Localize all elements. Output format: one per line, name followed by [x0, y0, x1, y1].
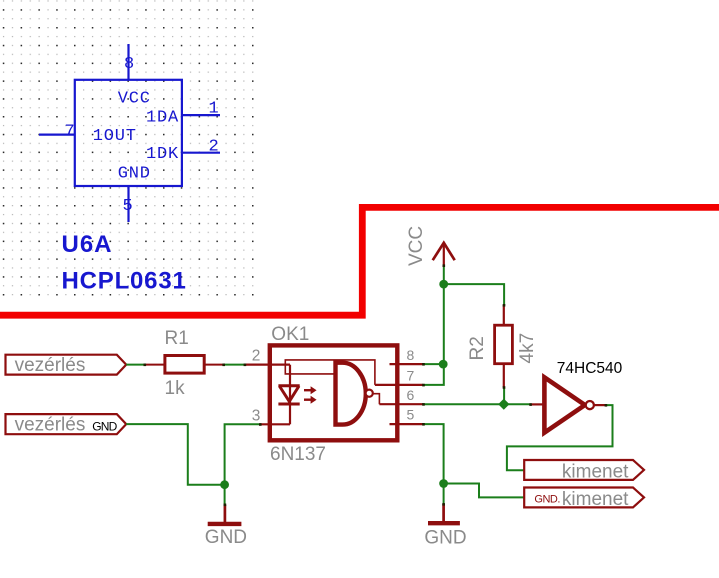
- wire R1 to OK1 pin 2: [224, 364, 246, 366]
- wire VCC junction down to pin 8 node: [443, 284, 445, 364]
- wire pin 8 node down to pin 7: [423, 364, 444, 385]
- svg-text:GND: GND: [205, 527, 247, 548]
- pin 7 of OK1: [375, 368, 423, 385]
- svg-text:1DA: 1DA: [146, 109, 179, 128]
- svg-text:VCC: VCC: [118, 90, 151, 109]
- wire junction down to ground GND1: [224, 485, 226, 506]
- ground GND2: [424, 504, 466, 549]
- svg-text:8: 8: [407, 347, 415, 363]
- wire 74HC540 output to flag kimenet: [507, 405, 613, 470]
- op-amp U6A symbol box (HCPL0631): [75, 80, 182, 186]
- flag vezérlés GND (input): [6, 414, 127, 435]
- svg-text:1: 1: [209, 100, 220, 119]
- svg-text:HCPL0631: HCPL0631: [62, 268, 187, 295]
- pin 3 of OK1: [252, 407, 290, 424]
- svg-text:7: 7: [65, 123, 76, 142]
- svg-text:vezérlés: vezérlés: [15, 414, 86, 435]
- wire junction up to OK1 pin 3: [225, 424, 261, 484]
- pin 8 of OK1: [390, 347, 424, 364]
- svg-text:6N137: 6N137: [270, 444, 326, 465]
- svg-text:VCC: VCC: [406, 226, 427, 266]
- wire pin 8 stub to VCC rail: [423, 363, 444, 365]
- wire GND2 junction down to ground: [443, 484, 445, 506]
- svg-text:4k7: 4k7: [517, 333, 538, 364]
- svg-text:GND: GND: [92, 419, 117, 433]
- svg-text:5: 5: [123, 197, 134, 216]
- svg-text:OK1: OK1: [271, 324, 309, 345]
- svg-text:8: 8: [124, 55, 135, 74]
- ground GND1: [205, 505, 247, 548]
- pin 5 (GND) of U6A: [123, 186, 134, 222]
- svg-text:vezérlés: vezérlés: [15, 355, 86, 376]
- optocoupler OK1 box: [270, 324, 398, 440]
- wire flag vezérlés GND to junction: [126, 424, 224, 485]
- junction dot at GND1 node: [220, 480, 229, 489]
- svg-text:1OUT: 1OUT: [93, 127, 137, 146]
- flag vezérlés (input): [6, 355, 127, 376]
- pin endpoint dots: [144, 264, 608, 506]
- power symbol VCC: [406, 226, 455, 266]
- svg-text:kimenet: kimenet: [562, 489, 629, 510]
- pin 6 of OK1: [379, 387, 423, 404]
- junction dot at pin 8 node: [439, 360, 448, 369]
- gate inside OK1: [285, 360, 379, 425]
- svg-text:2: 2: [209, 137, 220, 156]
- svg-text:R1: R1: [165, 328, 189, 349]
- junction diamond at pin 6 node: [498, 399, 509, 410]
- flag kimenet (output): [524, 460, 644, 482]
- pin 1 (1DA) of U6A: [182, 100, 220, 119]
- svg-text:GND.: GND.: [534, 493, 560, 505]
- inverter 74HC540: [530, 360, 622, 433]
- svg-text:3: 3: [252, 407, 261, 424]
- pin 5 of OK1: [390, 407, 424, 424]
- svg-text:2: 2: [252, 348, 261, 365]
- pin 2 (1DK) of U6A: [182, 137, 220, 156]
- junction dot at GND2 node: [439, 479, 448, 488]
- resistor R2: [467, 305, 512, 388]
- svg-text:1DK: 1DK: [146, 145, 179, 164]
- wire flag vezérlés to R1: [126, 364, 145, 366]
- svg-text:6: 6: [407, 387, 415, 403]
- svg-text:1k: 1k: [165, 378, 186, 399]
- pin 7 (1OUT) of U6A: [39, 123, 76, 142]
- pin 2 of OK1: [245, 348, 290, 365]
- svg-text:kimenet: kimenet: [562, 461, 629, 482]
- svg-text:74HC540: 74HC540: [557, 360, 623, 377]
- wire VCC junction to R2 top: [444, 284, 504, 306]
- svg-text:5: 5: [407, 407, 415, 423]
- LED inside OK1: [278, 365, 299, 425]
- resistor R1: [145, 328, 224, 373]
- flag GND kimenet (output): [524, 488, 644, 511]
- wire pin 6 to 74HC540 input: [423, 403, 531, 405]
- svg-text:U6A: U6A: [62, 231, 113, 258]
- wire VCC symbol to junction: [443, 266, 445, 285]
- svg-text:R2: R2: [467, 336, 488, 360]
- svg-text:GND: GND: [118, 165, 151, 184]
- pin 8 (VCC) of U6A: [124, 44, 135, 80]
- svg-text:7: 7: [407, 368, 415, 384]
- light arrows of OK1: [304, 386, 317, 404]
- wire R2 bottom to pin 6 net: [503, 387, 505, 405]
- wire GND2 junction to flag GND kimenet: [444, 484, 525, 498]
- junction dot at VCC node: [439, 280, 448, 289]
- wire pin 5 to GND2 junction: [423, 424, 443, 483]
- svg-text:GND: GND: [424, 528, 466, 549]
